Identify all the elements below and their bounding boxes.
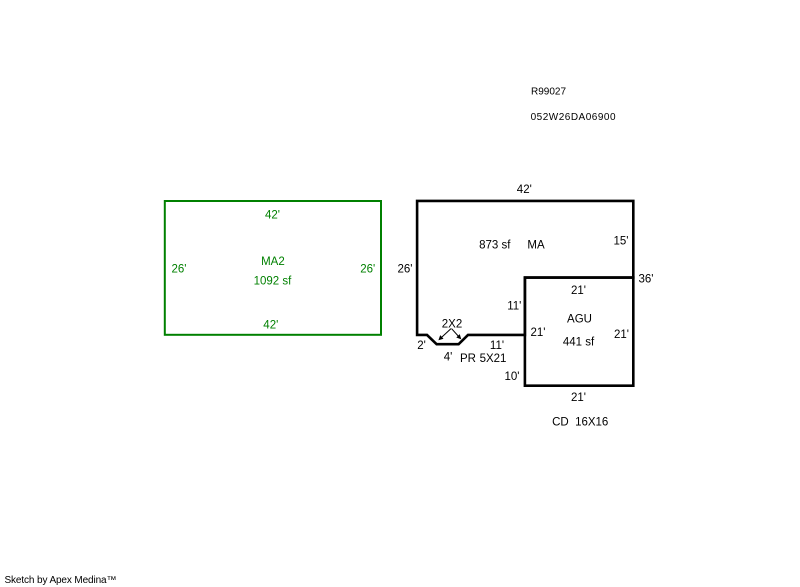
svg-text:052W26DA06900: 052W26DA06900 (531, 112, 616, 123)
svg-text:CD 16X16: CD 16X16 (552, 417, 608, 429)
svg-text:10': 10' (505, 371, 520, 383)
svg-text:42': 42' (265, 210, 280, 222)
AGU outline square (525, 278, 633, 386)
svg-text:15': 15' (614, 235, 629, 247)
svg-text:PR: PR (460, 353, 476, 365)
svg-text:2': 2' (417, 340, 426, 352)
arrow left from 2X2 to notch (439, 329, 451, 340)
svg-text:26': 26' (172, 264, 187, 276)
svg-text:26': 26' (398, 264, 413, 276)
MA2 green rectangle (165, 201, 381, 335)
svg-text:11': 11' (507, 301, 521, 313)
svg-text:11': 11' (490, 340, 504, 352)
svg-text:21': 21' (571, 392, 586, 404)
svg-text:MA2: MA2 (261, 256, 285, 268)
svg-text:26': 26' (360, 264, 375, 276)
svg-text:4': 4' (444, 352, 453, 364)
svg-text:5X21: 5X21 (480, 353, 507, 365)
MA outline polygon with porch notch (417, 201, 633, 344)
svg-text:36': 36' (639, 274, 654, 286)
svg-text:MA: MA (527, 240, 545, 252)
svg-text:R99027: R99027 (531, 87, 566, 98)
svg-text:AGU: AGU (567, 314, 592, 326)
svg-text:1092 sf: 1092 sf (254, 276, 293, 288)
svg-text:42': 42' (263, 320, 278, 332)
svg-text:21': 21' (571, 285, 586, 297)
svg-text:21': 21' (531, 327, 546, 339)
arrow right from 2X2 to notch (452, 329, 461, 339)
svg-text:21': 21' (614, 329, 629, 341)
svg-text:Sketch by Apex Medina™: Sketch by Apex Medina™ (5, 575, 117, 586)
svg-text:873 sf: 873 sf (479, 240, 511, 252)
svg-text:42': 42' (517, 184, 532, 196)
svg-text:441 sf: 441 sf (563, 337, 595, 349)
